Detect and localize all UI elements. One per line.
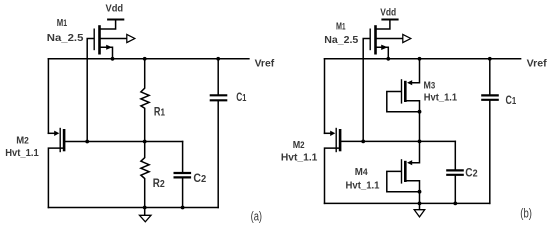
- M1b gate bar: [369, 29, 371, 49]
- node dot C2 bottom on ground rail (a): [181, 206, 185, 210]
- node dot M3 gate-source tie: [418, 110, 422, 114]
- node dot C1 top on Vref rail (a): [216, 57, 220, 61]
- power Vdd symbol (a): [108, 19, 123, 21]
- wire left rail Vref to M2 gate (b): [324, 59, 326, 134]
- transistor M2 (a): [48, 129, 64, 152]
- transistor M3 (b): [387, 59, 420, 142]
- capacitor C2 (b): [447, 141, 462, 203]
- M2 gate arrowhead: [54, 131, 59, 136]
- M1b source wire to Vdd: [377, 20, 390, 30]
- M2 gate arrow wire from left rail: [48, 132, 55, 134]
- M1 drain arrowhead: [106, 45, 112, 50]
- svg-text:C2: C2: [193, 173, 206, 185]
- M4 channel bar: [404, 162, 407, 181]
- svg-text:C1: C1: [236, 92, 246, 104]
- svg-text:C2: C2: [465, 168, 478, 180]
- M3 channel bar: [404, 82, 407, 101]
- M1 channel bar: [98, 27, 101, 54]
- svg-text:Hvt_1.1: Hvt_1.1: [5, 148, 39, 159]
- M2b gate arrow wire: [325, 132, 332, 134]
- transistor M1 (b): [363, 20, 411, 142]
- M2 channel bar: [63, 130, 66, 150]
- svg-text:M3: M3: [424, 80, 436, 91]
- M3 drain arrowhead: [407, 80, 412, 85]
- svg-text:M2: M2: [16, 136, 29, 147]
- svg-text:R1: R1: [154, 107, 165, 119]
- wire middle rail node between R1,R2 (a): [65, 141, 183, 143]
- wire top rail Vref net (b): [325, 58, 521, 60]
- node dot R1/R2 on middle rail (a): [143, 140, 147, 144]
- capacitor C1 (a): [211, 59, 226, 208]
- M2 gate bar: [59, 129, 61, 152]
- M1b gate wire down to middle node: [363, 39, 369, 142]
- M1b drain wire: [377, 47, 389, 59]
- svg-text:Vref: Vref: [255, 59, 275, 70]
- M4 source wire down to ground rail: [407, 181, 420, 210]
- svg-text:M1: M1: [336, 22, 346, 33]
- M3 gate bar: [401, 80, 403, 103]
- svg-text:R2: R2: [153, 178, 165, 190]
- M4 drain arrowhead: [407, 160, 412, 165]
- M1b body open arrowhead: [403, 34, 411, 42]
- node dot M3 drain on Vref rail: [418, 57, 422, 61]
- svg-text:M1: M1: [57, 18, 67, 29]
- M3 gate wrap wire to source: [387, 92, 420, 112]
- wire middle rail node (b): [341, 140, 455, 142]
- resistor R2 (a): [141, 142, 149, 216]
- wire top rail Vref net (a): [48, 58, 249, 60]
- wire M2 source down to ground rail (a): [48, 148, 63, 207]
- wire bottom ground rail (b): [325, 202, 490, 204]
- node dot C1b top on Vref rail: [488, 57, 492, 61]
- svg-text:Vdd: Vdd: [380, 8, 396, 19]
- svg-text:M2: M2: [293, 140, 305, 151]
- M4 gate bar: [401, 160, 403, 183]
- wire M2 source down to ground rail (b): [325, 148, 340, 203]
- M1 gate bar: [93, 29, 95, 49]
- M2b gate arrowhead: [330, 131, 335, 136]
- node dot M1 drain on Vref rail (a): [111, 57, 115, 61]
- resistor R1 (a): [141, 59, 149, 142]
- node dot M4 source on ground rail: [418, 202, 422, 206]
- wire left rail Vref to M2 gate (a): [47, 59, 49, 134]
- node dot M1b gate on middle rail: [361, 140, 365, 144]
- svg-text:Vdd: Vdd: [106, 4, 124, 15]
- M1 body wire: [101, 38, 127, 40]
- transistor M1 (a): [87, 20, 135, 142]
- svg-text:Vref: Vref: [527, 59, 548, 70]
- M3 source wire down to middle rail: [407, 101, 420, 142]
- node dot R2 bottom on ground rail (a): [143, 206, 147, 210]
- M1b channel bar: [374, 27, 377, 54]
- M1 body open arrowhead: [127, 34, 135, 42]
- node dot M1b drain on Vref rail: [386, 57, 390, 61]
- svg-text:Na_2.5: Na_2.5: [47, 33, 84, 44]
- M1b drain arrowhead: [381, 45, 388, 50]
- M2b gate bar: [335, 129, 337, 152]
- svg-text:Hvt_1.1: Hvt_1.1: [424, 92, 457, 103]
- M1b body wire: [377, 38, 403, 40]
- M1 source wire to Vdd: [101, 20, 116, 30]
- node dot R1 top on Vref rail (a): [143, 57, 147, 61]
- svg-text:Hvt_1.1: Hvt_1.1: [346, 181, 380, 192]
- M2b channel bar: [339, 130, 342, 150]
- capacitor C1 (b): [482, 59, 497, 204]
- capacitor C2 (a): [175, 142, 190, 208]
- M4 gate wrap wire to source: [387, 171, 420, 191]
- transistor M4 (b): [387, 141, 420, 209]
- svg-text:Hvt_1.1: Hvt_1.1: [281, 153, 318, 164]
- M4 drain wire from middle rail: [412, 141, 420, 162]
- ground symbol (b): [414, 210, 425, 217]
- M1 gate wire down to middle node: [87, 39, 93, 142]
- svg-text:(a): (a): [251, 210, 262, 224]
- svg-text:M4: M4: [355, 167, 369, 178]
- svg-text:C1: C1: [506, 95, 517, 107]
- node dot M4 gate-source tie: [418, 190, 422, 194]
- transistor M2 (b): [325, 129, 341, 152]
- node dot M1 gate on middle rail (a): [85, 140, 89, 144]
- M1 drain wire: [101, 47, 113, 59]
- wire bottom ground rail (a): [48, 207, 218, 209]
- power Vdd symbol (b): [382, 19, 397, 21]
- M3 drain wire from Vref rail: [412, 59, 420, 83]
- node dot C2b bottom on ground rail: [453, 202, 457, 206]
- svg-text:(b): (b): [520, 207, 532, 221]
- node dot M3 source on middle rail: [418, 140, 422, 144]
- ground symbol (a): [140, 215, 152, 222]
- svg-text:Na_2.5: Na_2.5: [324, 35, 358, 46]
